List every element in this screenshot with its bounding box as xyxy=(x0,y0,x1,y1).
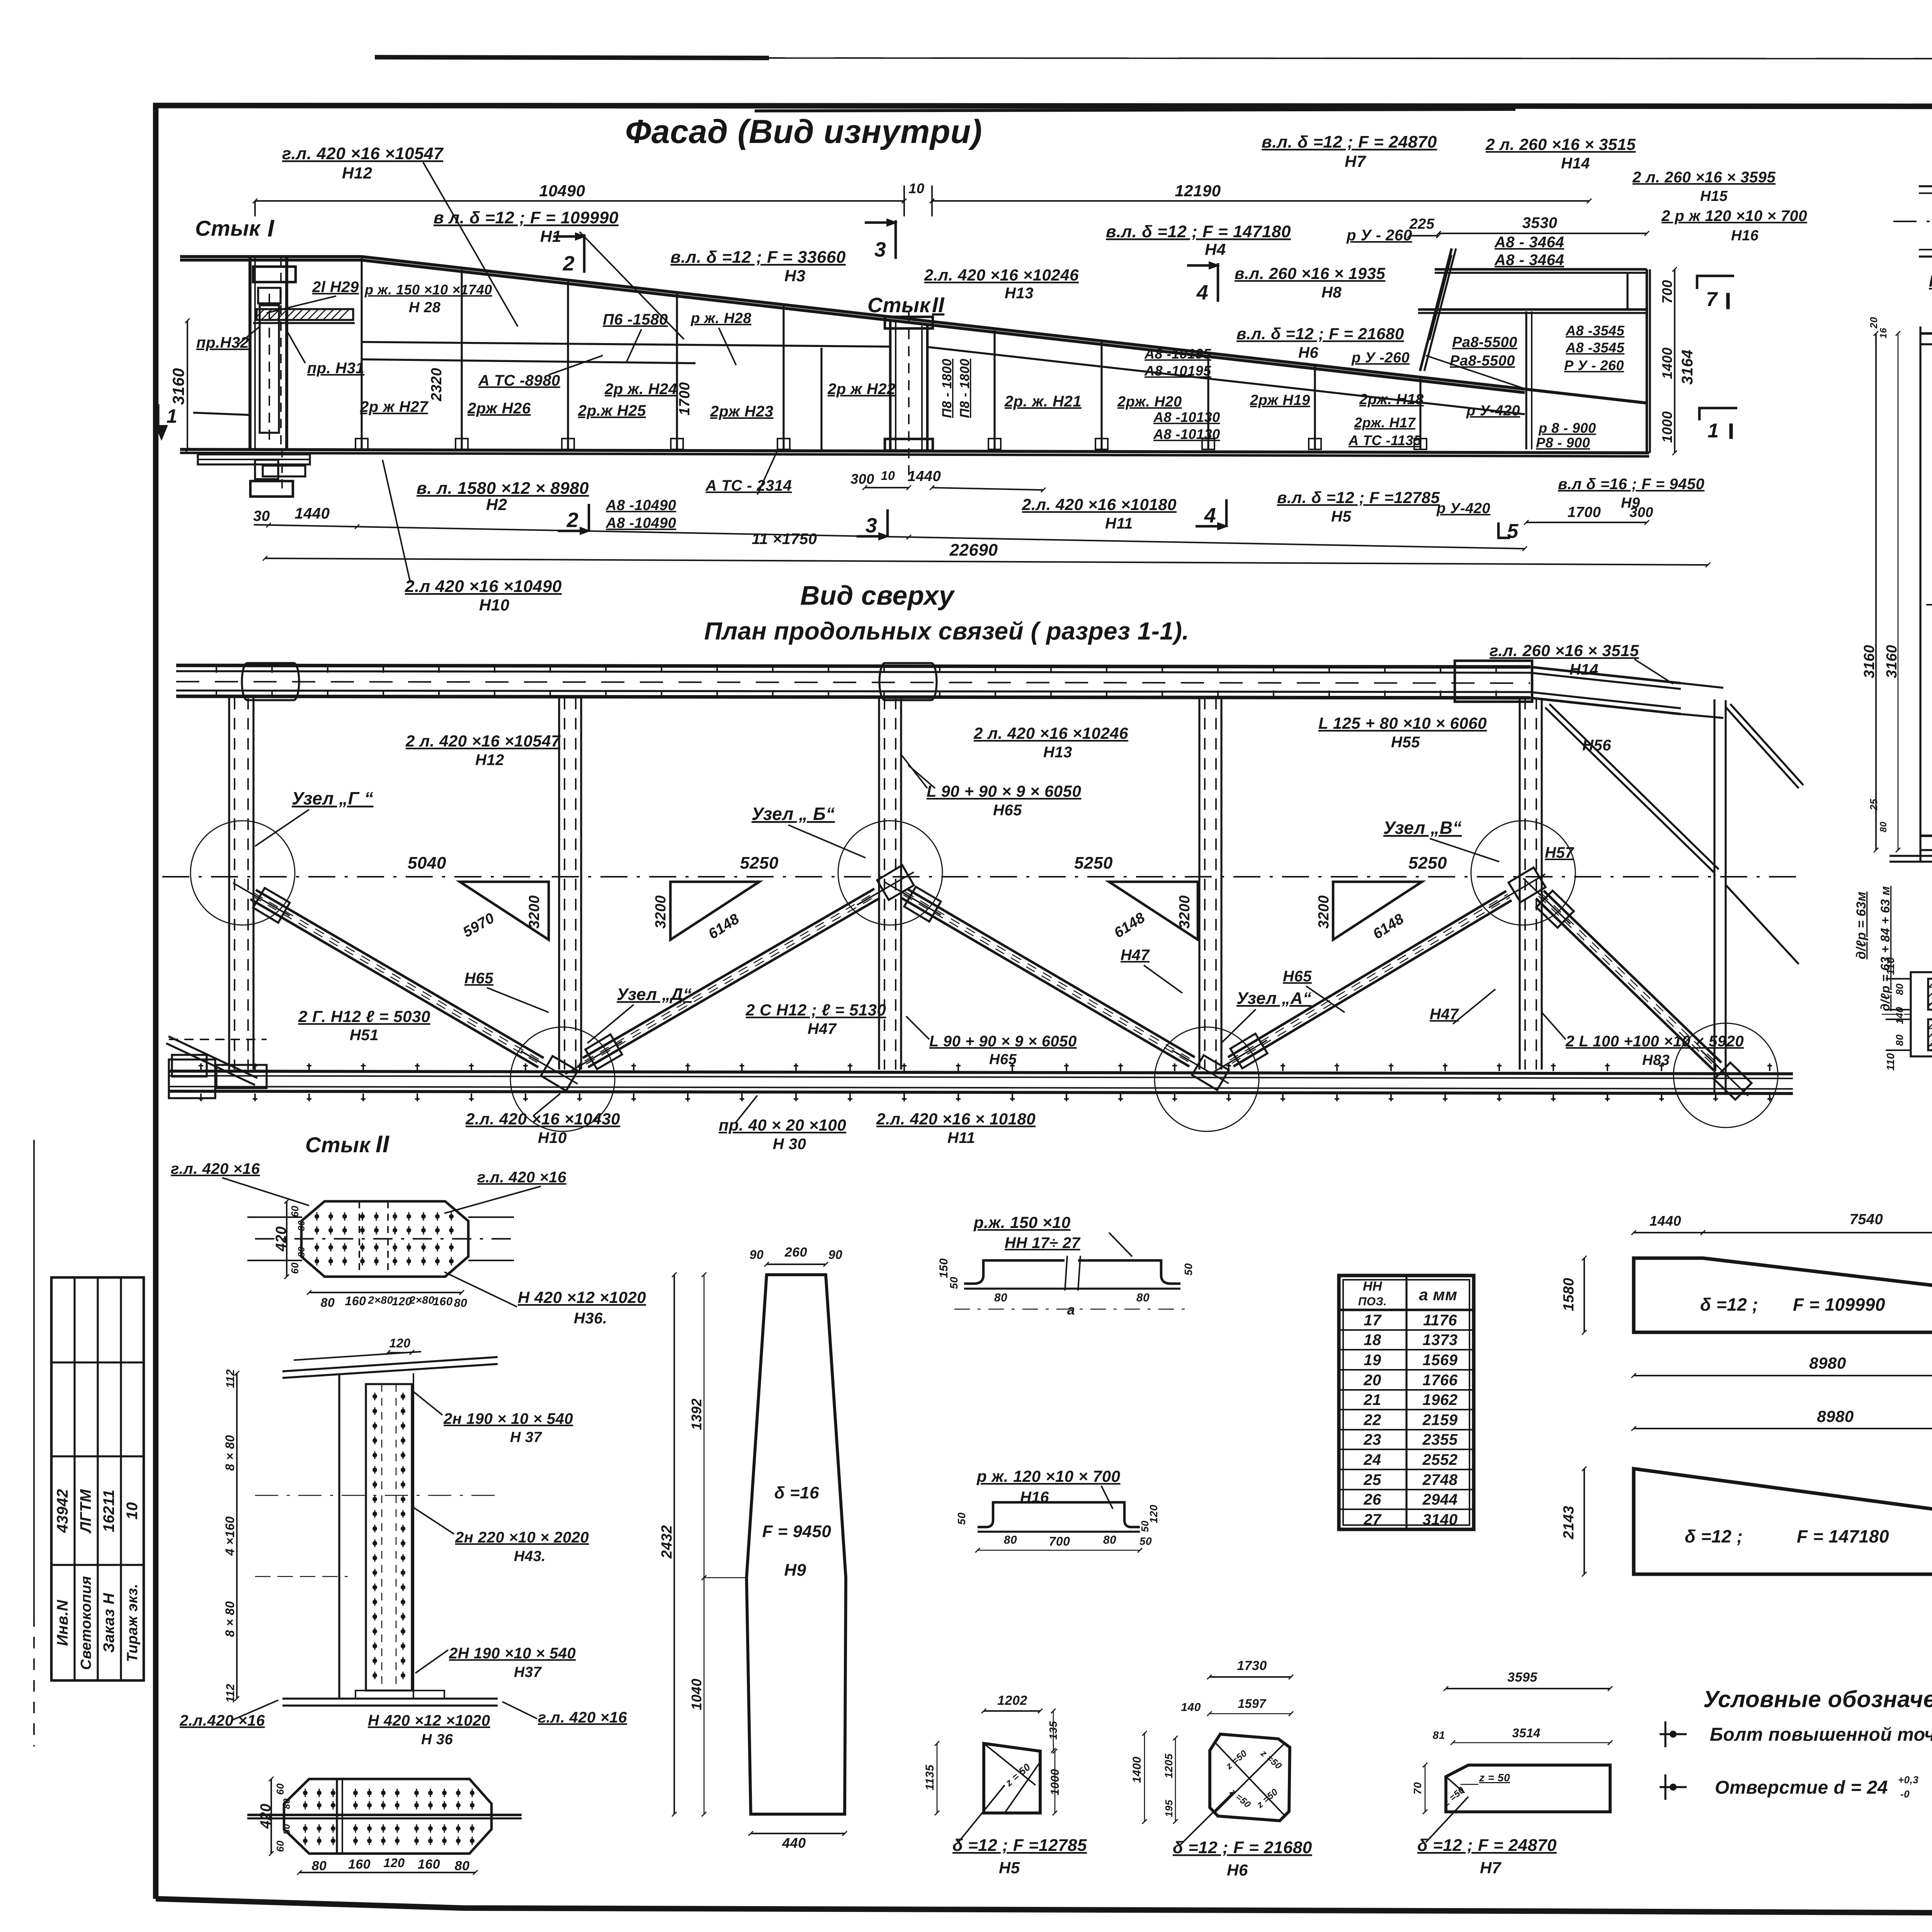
svg-text:8980: 8980 xyxy=(1809,1354,1846,1372)
svg-text:160: 160 xyxy=(348,1857,371,1872)
plate N4 dims xyxy=(1634,1428,1932,1429)
plate N5 outline xyxy=(984,1743,1040,1813)
facade left end bearing stiffener xyxy=(260,305,279,433)
plate N1 xyxy=(1634,1258,1932,1332)
plate N5 dims xyxy=(984,1710,1040,1712)
svg-text:Узел „А“: Узел „А“ xyxy=(1236,989,1311,1008)
svg-text:50: 50 xyxy=(948,1277,960,1289)
svg-text:А ТС - 2314: А ТС - 2314 xyxy=(705,477,792,494)
svg-text:г.л. 260 ×16 × 3515: г.л. 260 ×16 × 3515 xyxy=(1490,641,1639,660)
svg-text:Стык: Стык xyxy=(195,216,261,240)
svg-text:А ТС -8980: А ТС -8980 xyxy=(478,372,560,389)
svg-text:z = 50: z = 50 xyxy=(1479,1772,1510,1784)
svg-text:Н83: Н83 xyxy=(1642,1052,1670,1068)
svg-text:А8 - 3464: А8 - 3464 xyxy=(1494,252,1564,269)
StykII octagon2 bolts xyxy=(303,1789,308,1797)
svg-text:8 × 80: 8 × 80 xyxy=(223,1435,237,1471)
svg-text:80: 80 xyxy=(296,1247,307,1257)
svg-text:δ =12 ; F = 24870: δ =12 ; F = 24870 xyxy=(1417,1836,1557,1855)
svg-text:1962: 1962 xyxy=(1423,1391,1458,1408)
svg-text:3514: 3514 xyxy=(1512,1726,1540,1740)
svg-text:П8 - 1800: П8 - 1800 xyxy=(957,359,972,418)
svg-text:80: 80 xyxy=(312,1859,327,1873)
facade right end diagonal braces xyxy=(1426,355,1525,389)
svg-text:43942: 43942 xyxy=(54,1489,71,1533)
svg-text:1400: 1400 xyxy=(1131,1757,1143,1783)
svg-text:2 л. 420 ×16 ×10246: 2 л. 420 ×16 ×10246 xyxy=(973,724,1128,742)
svg-text:225: 225 xyxy=(1409,216,1435,232)
svg-text:1373: 1373 xyxy=(1423,1332,1458,1349)
plan right end verticals xyxy=(1713,699,1715,1094)
svg-text:д/ℓр = 63 + 84 + 63 м: д/ℓр = 63 + 84 + 63 м xyxy=(1878,886,1892,1011)
StykII octagon2 xyxy=(284,1779,492,1854)
svg-text:Ра8-5500: Ра8-5500 xyxy=(1450,353,1515,369)
plan band bolt ticks xyxy=(216,667,217,673)
svg-text:р ж. 120 ×10 × 700: р ж. 120 ×10 × 700 xyxy=(976,1467,1121,1485)
svg-text:1440: 1440 xyxy=(1650,1213,1681,1229)
plan bottom chord bolt pairs xyxy=(199,1065,203,1066)
plate N6 outline xyxy=(1210,1734,1290,1821)
svg-text:Р8 - 900: Р8 - 900 xyxy=(1536,435,1590,451)
svg-text:2355: 2355 xyxy=(1422,1431,1458,1448)
svg-text:440: 440 xyxy=(782,1835,806,1851)
svg-text:80: 80 xyxy=(1103,1534,1116,1546)
svg-text:Н13: Н13 xyxy=(1005,285,1034,302)
svg-text:81: 81 xyxy=(1433,1729,1445,1741)
svg-text:2.л. 420 ×16 ×10180: 2.л. 420 ×16 ×10180 xyxy=(1022,495,1177,514)
svg-text:Н 420 ×12 ×1020: Н 420 ×12 ×1020 xyxy=(518,1288,646,1306)
svg-text:135: 135 xyxy=(1047,1721,1059,1740)
svg-text:160: 160 xyxy=(433,1295,453,1308)
svg-text:Н13: Н13 xyxy=(1043,744,1072,761)
svg-text:Н7: Н7 xyxy=(1480,1859,1502,1877)
svg-text:П8 - 1800: П8 - 1800 xyxy=(940,359,954,418)
svg-text:Фасад (Вид изнутри): Фасад (Вид изнутри) xyxy=(625,113,982,150)
svg-text:23: 23 xyxy=(1363,1431,1381,1448)
svg-text:80: 80 xyxy=(282,1824,292,1835)
plan band splice plate left xyxy=(242,663,299,700)
frame top reinforcement segment xyxy=(755,109,1515,111)
svg-text:2 л. 260 ×16 × 3595: 2 л. 260 ×16 × 3595 xyxy=(1632,169,1776,186)
svg-text:2.л.420 ×16: 2.л.420 ×16 xyxy=(179,1712,265,1729)
svg-text:5250: 5250 xyxy=(1074,854,1113,872)
svg-text:1392: 1392 xyxy=(689,1398,704,1430)
StykII column left dim chain xyxy=(236,1373,238,1699)
svg-text:Н9: Н9 xyxy=(784,1561,806,1580)
svg-text:1766: 1766 xyxy=(1423,1372,1458,1389)
svg-text:260: 260 xyxy=(784,1245,807,1260)
svg-text:Заказ Н: Заказ Н xyxy=(100,1593,117,1653)
svg-text:2552: 2552 xyxy=(1422,1451,1458,1468)
StykII octagon1 bolts xyxy=(315,1212,319,1221)
svg-text:δ =12 ; F = 21680: δ =12 ; F = 21680 xyxy=(1173,1838,1312,1857)
svg-text:20: 20 xyxy=(1363,1372,1381,1389)
svg-text:112: 112 xyxy=(224,1684,237,1702)
StykII column verticals xyxy=(338,1373,340,1699)
svg-text:пр. 40 × 20 ×100: пр. 40 × 20 ×100 xyxy=(719,1116,846,1134)
plan left end bearing rects xyxy=(169,1060,215,1098)
svg-text:Н1: Н1 xyxy=(540,227,561,245)
positions table xyxy=(1339,1276,1474,1529)
svg-text:Узел „В“: Узел „В“ xyxy=(1383,818,1462,838)
svg-text:Н47: Н47 xyxy=(808,1020,837,1037)
svg-text:р У -260: р У -260 xyxy=(1351,350,1410,366)
svg-text:+0,3: +0,3 xyxy=(1898,1774,1918,1786)
svg-text:5250: 5250 xyxy=(1408,854,1447,872)
svg-text:Тираж экз.: Тираж экз. xyxy=(124,1583,141,1662)
svg-text:3595: 3595 xyxy=(1507,1670,1537,1685)
svg-text:Болт повышенной точности d: Болт повышенной точности d = 24 xyxy=(1710,1725,1932,1745)
svg-text:2 L 100 +100 ×10 × 5920: 2 L 100 +100 ×10 × 5920 xyxy=(1565,1033,1744,1050)
svg-text:10: 10 xyxy=(881,469,895,483)
StykI elevation left edge xyxy=(1919,327,1921,862)
svg-text:3: 3 xyxy=(866,514,878,537)
svg-text:5040: 5040 xyxy=(408,854,446,872)
svg-text:р ж. 150 ×10 ×1740: р ж. 150 ×10 ×1740 xyxy=(364,282,492,298)
StykI chord lines into octagon xyxy=(1919,185,1932,187)
svg-text:2рж Н19: 2рж Н19 xyxy=(1250,392,1310,408)
svg-text:А8 -3545: А8 -3545 xyxy=(1565,340,1625,355)
svg-text:25: 25 xyxy=(1868,799,1879,811)
svg-text:80: 80 xyxy=(994,1291,1007,1304)
svg-text:2.л 420 ×16 ×10490: 2.л 420 ×16 ×10490 xyxy=(405,577,562,596)
svg-text:3200: 3200 xyxy=(1316,895,1332,929)
plate N6 dims xyxy=(1209,1676,1291,1678)
hat profile rj120 outline xyxy=(978,1502,1140,1527)
svg-text:2748: 2748 xyxy=(1422,1471,1458,1488)
svg-text:1205: 1205 xyxy=(1163,1753,1175,1778)
svg-text:Н6: Н6 xyxy=(1298,344,1318,361)
svg-text:в.л. δ =12 ; F =12785: в.л. δ =12 ; F =12785 xyxy=(1277,488,1440,507)
svg-text:Светокопия: Светокопия xyxy=(78,1576,94,1670)
svg-text:80: 80 xyxy=(296,1220,307,1231)
svg-text:Н12: Н12 xyxy=(475,752,504,769)
svg-text:110: 110 xyxy=(1884,1053,1896,1071)
plan band splice plate right xyxy=(1455,661,1532,702)
svg-text:160: 160 xyxy=(345,1294,366,1308)
plate N9 outline xyxy=(747,1275,846,1814)
svg-text:Н5: Н5 xyxy=(1331,508,1351,525)
svg-text:195: 195 xyxy=(1163,1800,1175,1817)
svg-text:в.л. δ =12 ; F = 147180: в.л. δ =12 ; F = 147180 xyxy=(1106,222,1291,241)
svg-text:Н5: Н5 xyxy=(999,1859,1020,1877)
svg-text:3140: 3140 xyxy=(1423,1511,1458,1528)
svg-text:2н 220 ×10 × 2020: 2н 220 ×10 × 2020 xyxy=(455,1529,589,1546)
svg-text:12190: 12190 xyxy=(1175,182,1221,200)
svg-text:пр. Н31: пр. Н31 xyxy=(307,360,364,377)
facade top chord xyxy=(180,255,361,258)
svg-text:2р ж Н22: 2р ж Н22 xyxy=(827,381,896,398)
svg-text:в. л. 1580 ×12 × 8980: в. л. 1580 ×12 × 8980 xyxy=(417,479,589,498)
svg-text:в.л. δ =12 ; F = 33660: в.л. δ =12 ; F = 33660 xyxy=(670,248,846,267)
svg-text:60: 60 xyxy=(274,1840,286,1852)
svg-text:3200: 3200 xyxy=(526,895,543,929)
svg-text:2: 2 xyxy=(563,252,575,275)
svg-text:Стык: Стык xyxy=(867,294,931,317)
svg-text:Н65: Н65 xyxy=(464,970,493,987)
svg-text:16: 16 xyxy=(1878,328,1889,338)
plan left end diagonal stub xyxy=(166,1043,255,1085)
svg-text:F = 9450: F = 9450 xyxy=(762,1522,832,1541)
svg-text:2.л. 420 ×16 × 10180: 2.л. 420 ×16 × 10180 xyxy=(876,1110,1036,1128)
svg-text:F = 109990: F = 109990 xyxy=(1793,1294,1885,1315)
svg-text:1176: 1176 xyxy=(1423,1312,1457,1329)
svg-text:700: 700 xyxy=(1659,280,1675,304)
facade bottom chord xyxy=(180,449,1649,453)
svg-text:Н37: Н37 xyxy=(514,1664,542,1680)
StykI splice left hatched plates xyxy=(1928,979,1932,1010)
svg-text:δ =12 ;: δ =12 ; xyxy=(1685,1526,1743,1546)
svg-text:4: 4 xyxy=(1204,504,1216,527)
svg-text:-0: -0 xyxy=(1900,1788,1910,1800)
svg-text:Н47: Н47 xyxy=(1430,1006,1459,1023)
svg-text:Н14: Н14 xyxy=(1570,661,1599,678)
svg-text:11 ×1750: 11 ×1750 xyxy=(752,531,817,548)
svg-text:δ =16: δ =16 xyxy=(774,1483,819,1502)
svg-text:Н65: Н65 xyxy=(1283,968,1312,985)
svg-text:50: 50 xyxy=(956,1512,968,1525)
svg-text:Н 36: Н 36 xyxy=(421,1731,453,1748)
svg-text:А8 -10195: А8 -10195 xyxy=(1144,363,1211,379)
svg-text:Стык: Стык xyxy=(305,1133,371,1157)
svg-text:Н57: Н57 xyxy=(1545,844,1574,861)
svg-text:р У-420: р У-420 xyxy=(1466,403,1520,419)
svg-text:L 125 + 80 ×10 × 6060: L 125 + 80 ×10 × 6060 xyxy=(1318,714,1487,732)
svg-text:г.л. 420 ×16 ×10547: г.л. 420 ×16 ×10547 xyxy=(282,144,444,163)
svg-text:112: 112 xyxy=(224,1369,237,1388)
svg-text:Н7: Н7 xyxy=(1345,152,1366,170)
svg-text:80: 80 xyxy=(282,1798,292,1809)
svg-text:10490: 10490 xyxy=(539,182,585,200)
StykII octagon1 xyxy=(301,1201,468,1277)
svg-text:160: 160 xyxy=(418,1857,440,1872)
svg-text:2рж Н26: 2рж Н26 xyxy=(467,400,531,417)
svg-text:2 л. 260 ×16 × 3515: 2 л. 260 ×16 × 3515 xyxy=(1485,135,1636,153)
svg-text:L 90 + 90 × 9 × 6050: L 90 + 90 × 9 × 6050 xyxy=(927,782,1081,800)
StykI elevation top flange xyxy=(1920,332,1932,335)
svg-text:р У-420: р У-420 xyxy=(1436,500,1490,517)
facade right dims xyxy=(1674,269,1675,453)
svg-text:в.л δ =16 ; F = 9450: в.л δ =16 ; F = 9450 xyxy=(1558,476,1704,493)
svg-text:a мм: a мм xyxy=(1419,1286,1457,1304)
facade longitudinal rib A TC-8980 xyxy=(362,342,890,347)
svg-text:А8 -3545: А8 -3545 xyxy=(1565,323,1625,338)
svg-text:60: 60 xyxy=(274,1783,286,1795)
svg-text:Н10: Н10 xyxy=(479,596,510,614)
svg-text:50: 50 xyxy=(1139,1520,1151,1532)
svg-text:г.л. 420 ×16: г.л. 420 ×16 xyxy=(538,1709,627,1726)
StykII column bolts xyxy=(372,1393,377,1400)
svg-text:Н 420 ×12 ×1000: Н 420 ×12 ×1000 xyxy=(1929,272,1932,290)
facade right rib A8-10195 xyxy=(927,347,1525,414)
svg-text:26: 26 xyxy=(1363,1491,1381,1508)
svg-text:2 С Н12 ; ℓ = 5130: 2 С Н12 ; ℓ = 5130 xyxy=(745,1001,886,1019)
dim 30-1440-11x1750 chain xyxy=(254,525,1525,549)
svg-text:17: 17 xyxy=(1364,1312,1382,1329)
svg-text:План продольных связей ( р: План продольных связей ( разрез 1-1). xyxy=(704,617,1189,645)
svg-text:120: 120 xyxy=(384,1856,405,1870)
svg-text:Н51: Н51 xyxy=(350,1027,379,1044)
svg-text:2: 2 xyxy=(566,509,579,532)
svg-text:80: 80 xyxy=(1004,1534,1017,1546)
plan bottom chord xyxy=(169,1071,1793,1074)
svg-text:2×80: 2×80 xyxy=(367,1294,393,1306)
StykI splice detail outer outline xyxy=(1911,972,1932,1056)
svg-text:Отверстие d = 24: Отверстие d = 24 xyxy=(1715,1777,1888,1798)
StykII column bottom plates xyxy=(282,1697,498,1699)
svg-text:Узел „Г “: Узел „Г “ xyxy=(292,788,373,808)
svg-text:2143: 2143 xyxy=(1561,1506,1577,1540)
svg-text:2р ж. Н24: 2р ж. Н24 xyxy=(604,381,677,398)
svg-text:1440: 1440 xyxy=(908,468,941,485)
svg-text:Н3: Н3 xyxy=(784,267,806,285)
svg-text:150: 150 xyxy=(937,1258,950,1278)
StykI splice dashed bolt rows xyxy=(1928,987,1932,988)
svg-text:Н16: Н16 xyxy=(1731,228,1759,244)
svg-text:Н65: Н65 xyxy=(993,802,1022,819)
svg-text:1400: 1400 xyxy=(1659,347,1675,379)
svg-text:1440: 1440 xyxy=(295,505,330,522)
svg-text:4: 4 xyxy=(1196,281,1209,304)
svg-text:А8 -10130: А8 -10130 xyxy=(1153,426,1220,442)
svg-text:140: 140 xyxy=(1181,1701,1201,1714)
svg-text:3160: 3160 xyxy=(169,368,187,405)
svg-text:2рж. Н17: 2рж. Н17 xyxy=(1354,415,1416,430)
svg-text:δ =12 ;: δ =12 ; xyxy=(1700,1294,1758,1315)
svg-text:2н 190 × 10 × 540: 2н 190 × 10 × 540 xyxy=(443,1410,573,1427)
svg-text:А ТС -1135: А ТС -1135 xyxy=(1348,432,1422,448)
svg-text:60: 60 xyxy=(289,1262,301,1274)
svg-text:10: 10 xyxy=(908,180,924,196)
StykI splice extension lines left xyxy=(1886,978,1911,980)
svg-text:1597: 1597 xyxy=(1238,1697,1267,1711)
svg-text:Н 28: Н 28 xyxy=(409,299,441,316)
svg-text:8 × 80: 8 × 80 xyxy=(223,1601,237,1637)
svg-text:3530: 3530 xyxy=(1522,214,1558,231)
svg-text:80: 80 xyxy=(454,1297,467,1310)
svg-text:a: a xyxy=(1067,1302,1075,1318)
svg-text:А8 - 3464: А8 - 3464 xyxy=(1494,234,1564,251)
svg-text:в л. δ =12 ; F = 109990: в л. δ =12 ; F = 109990 xyxy=(434,208,619,227)
svg-text:2.л. 420 ×16 ×10430: 2.л. 420 ×16 ×10430 xyxy=(465,1110,620,1128)
svg-text:Н 37: Н 37 xyxy=(510,1429,543,1446)
svg-text:1040: 1040 xyxy=(689,1679,704,1710)
svg-text:Н8: Н8 xyxy=(1321,284,1342,301)
facade upper rib rj150 xyxy=(362,359,696,363)
svg-text:Р У - 260: Р У - 260 xyxy=(1564,357,1624,373)
svg-text:Н 420 ×12 ×1020: Н 420 ×12 ×1020 xyxy=(368,1712,490,1729)
registration table grid xyxy=(51,1277,144,1680)
svg-text:ЛГТМ: ЛГТМ xyxy=(77,1489,94,1534)
svg-text:Узел „Д“: Узел „Д“ xyxy=(617,985,692,1004)
facade partial stiffener xyxy=(820,348,822,449)
StykII column elevation top plates xyxy=(282,1357,498,1371)
svg-text:в.л. δ =12 ; F = 21680: в.л. δ =12 ; F = 21680 xyxy=(1236,325,1404,343)
svg-text:р У - 260: р У - 260 xyxy=(1346,227,1412,244)
svg-text:22690: 22690 xyxy=(949,541,998,560)
svg-text:4 ×160: 4 ×160 xyxy=(223,1516,237,1556)
svg-text:2159: 2159 xyxy=(1422,1412,1458,1429)
svg-text:1135: 1135 xyxy=(923,1764,936,1790)
svg-text:1000: 1000 xyxy=(1049,1769,1061,1796)
svg-text:2р.ж Н25: 2р.ж Н25 xyxy=(578,402,646,419)
plan diagonals xyxy=(256,890,544,1058)
svg-text:80: 80 xyxy=(455,1859,470,1873)
svg-text:А8 -10490: А8 -10490 xyxy=(605,497,676,514)
svg-text:Н47: Н47 xyxy=(1121,947,1150,964)
facade right end raised section xyxy=(1435,268,1647,271)
facade Styk II splice post xyxy=(889,321,892,449)
svg-text:Условные обозначения:: Условные обозначения: xyxy=(1703,1686,1932,1712)
plate N4 xyxy=(1634,1469,1932,1574)
svg-text:р 8 - 900: р 8 - 900 xyxy=(1538,420,1596,436)
svg-text:Н65: Н65 xyxy=(989,1051,1017,1068)
svg-text:3160: 3160 xyxy=(1861,645,1878,679)
facade hatched jacking plate pr N31 xyxy=(257,309,353,320)
plan centerline xyxy=(162,876,1797,878)
plate N7 outline xyxy=(1446,1765,1610,1812)
hat profile rj150 outline xyxy=(964,1260,1180,1284)
svg-text:120: 120 xyxy=(389,1336,411,1350)
svg-text:140: 140 xyxy=(1894,1007,1905,1024)
svg-text:1730: 1730 xyxy=(1237,1658,1267,1673)
svg-text:Н2: Н2 xyxy=(486,495,507,514)
svg-text:24: 24 xyxy=(1363,1451,1381,1468)
svg-text:Н 30: Н 30 xyxy=(773,1136,806,1153)
svg-text:2рж Н23: 2рж Н23 xyxy=(710,403,774,420)
svg-text:А8 -10490: А8 -10490 xyxy=(605,515,676,531)
svg-text:в.л. 260 ×16 × 1935: в.л. 260 ×16 × 1935 xyxy=(1235,264,1385,282)
svg-text:2 л. 420 ×16 ×10547: 2 л. 420 ×16 ×10547 xyxy=(405,732,561,750)
svg-text:1202: 1202 xyxy=(997,1693,1027,1708)
facade left end post xyxy=(248,257,252,449)
svg-text:3164: 3164 xyxy=(1679,350,1696,385)
svg-text:р.ж. 150 ×10: р.ж. 150 ×10 xyxy=(973,1213,1071,1231)
svg-text:2рж. Н18: 2рж. Н18 xyxy=(1359,391,1424,408)
svg-text:Н6: Н6 xyxy=(1227,1861,1248,1879)
svg-text:120: 120 xyxy=(1148,1505,1160,1523)
svg-text:НН 17÷ 27: НН 17÷ 27 xyxy=(1005,1235,1081,1252)
svg-text:А8 -10195: А8 -10195 xyxy=(1144,346,1211,362)
svg-text:П6 -1580: П6 -1580 xyxy=(603,311,668,328)
plan band splice plate mid xyxy=(879,663,937,700)
svg-text:в.л. δ =12 ; F = 24870: в.л. δ =12 ; F = 24870 xyxy=(1262,133,1437,151)
svg-text:2×80: 2×80 xyxy=(409,1294,434,1306)
svg-text:р ж. Н28: р ж. Н28 xyxy=(690,310,752,327)
svg-text:Узел „ Б“: Узел „ Б“ xyxy=(752,804,835,824)
svg-text:г.л. 420 ×16: г.л. 420 ×16 xyxy=(477,1169,566,1186)
svg-text:2320: 2320 xyxy=(429,368,445,402)
svg-text:ПОЗ.: ПОЗ. xyxy=(1358,1295,1387,1308)
svg-text:Н55: Н55 xyxy=(1391,734,1420,751)
svg-text:8980: 8980 xyxy=(1817,1407,1854,1425)
svg-text:1569: 1569 xyxy=(1423,1352,1458,1369)
facade stiffeners xyxy=(361,258,362,449)
svg-text:1700: 1700 xyxy=(1568,504,1601,520)
svg-text:д/ℓр = 63м: д/ℓр = 63м xyxy=(1854,891,1869,959)
plan posts xyxy=(228,698,230,1070)
svg-text:80: 80 xyxy=(1894,983,1905,995)
svg-text:Инв.N: Инв.N xyxy=(54,1600,71,1646)
dim 10490 / 12190 line xyxy=(255,200,904,202)
StykII column dashed centerlines xyxy=(255,1495,498,1496)
svg-text:80: 80 xyxy=(1878,821,1889,832)
svg-text:7: 7 xyxy=(1706,288,1718,311)
plate N1 dims xyxy=(1583,1258,1585,1332)
svg-text:L 90 + 90 × 9 × 6050: L 90 + 90 × 9 × 6050 xyxy=(929,1033,1077,1050)
StykI bottom flange xyxy=(1920,835,1932,837)
svg-text:Ра8-5500: Ра8-5500 xyxy=(1452,334,1517,350)
